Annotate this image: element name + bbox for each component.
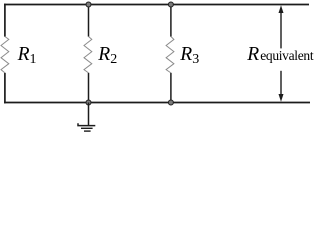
- ground stem wire: [88, 103, 90, 126]
- wire bottom horizontal: [4, 102, 310, 104]
- arrowhead up: [279, 5, 284, 13]
- resistor R3: [166, 37, 174, 73]
- wire branch 2 top segment: [88, 5, 90, 37]
- label R2: [98, 44, 117, 68]
- label R1: [18, 44, 37, 68]
- label Requivalent: [247, 44, 313, 66]
- arrow upper shaft: [280, 9, 282, 48]
- junction node bottom of R3 branch: [168, 100, 173, 105]
- wire branch 3 top segment: [170, 5, 172, 37]
- ground bar 2: [81, 127, 93, 129]
- wire branch 3 bottom segment: [170, 73, 172, 103]
- junction node top of R2 branch: [86, 2, 91, 7]
- arrow lower shaft: [280, 71, 282, 98]
- ground bar 1 with left hook: [78, 123, 95, 125]
- wire top horizontal: [4, 4, 309, 6]
- wire branch 2 bottom segment: [88, 73, 90, 103]
- ground bar 3: [84, 130, 91, 132]
- arrowhead down: [279, 94, 284, 102]
- label R3: [180, 44, 199, 68]
- junction node top of R3 branch: [168, 2, 173, 7]
- wire left branch top segment: [4, 4, 6, 37]
- junction node bottom of R2 branch: [86, 100, 91, 105]
- wire left branch bottom segment: [4, 73, 6, 104]
- resistor R1: [1, 37, 9, 73]
- resistor R2: [84, 37, 92, 73]
